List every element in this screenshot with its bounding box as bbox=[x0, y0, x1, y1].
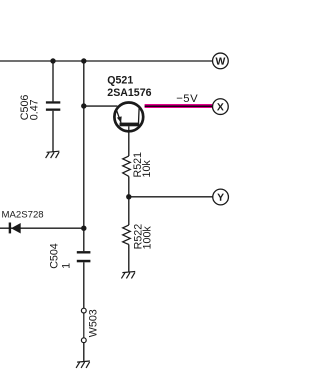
wire collector to X, magenta highlighted -5V line bbox=[145, 104, 213, 108]
ground below W503 bbox=[76, 361, 90, 368]
resistor R521 10k bbox=[123, 152, 153, 178]
svg-text:10k: 10k bbox=[141, 160, 153, 178]
capacitor C506 0.47 bbox=[19, 95, 60, 121]
resistor R522 100k bbox=[123, 224, 154, 250]
capacitor C504 1 bbox=[49, 243, 91, 269]
ground below R522 bbox=[121, 272, 135, 279]
wire base down to R521 bbox=[128, 132, 130, 157]
node junction E (Y tap) bbox=[126, 194, 131, 199]
svg-text:W503: W503 bbox=[87, 309, 99, 337]
node junction C (emitter tap) bbox=[81, 103, 86, 108]
wire R521 to junction E bbox=[128, 176, 130, 196]
node junction A (C506 tap) bbox=[50, 58, 55, 63]
ground below C506 bbox=[46, 151, 60, 158]
node junction D (diode tap) bbox=[81, 226, 86, 231]
svg-text:2SA1576: 2SA1576 bbox=[107, 87, 151, 99]
wire junction C down to junction D bbox=[83, 106, 85, 228]
wire junction D down to C504 bbox=[83, 228, 85, 251]
wire C504 down to W503 bbox=[83, 262, 85, 308]
svg-text:100k: 100k bbox=[141, 226, 153, 250]
wire C506 down to ground bbox=[52, 111, 54, 152]
svg-text:1: 1 bbox=[61, 263, 73, 269]
wire emitter horizontal bbox=[84, 105, 118, 107]
connector W503 bbox=[81, 308, 99, 342]
wire W503 down to ground bbox=[83, 343, 85, 362]
node junction B (vertical branch) bbox=[81, 58, 86, 63]
wire junction E to R522 bbox=[128, 197, 130, 225]
svg-text:C504: C504 bbox=[49, 243, 61, 269]
wire junction B down to junction C bbox=[83, 61, 85, 106]
wire junction A down to C506 bbox=[52, 61, 54, 101]
wire top horizontal to W bbox=[0, 60, 212, 62]
svg-text:Y: Y bbox=[217, 193, 224, 204]
diode MA2S728 bbox=[2, 209, 44, 233]
wire junction E to Y bbox=[129, 196, 213, 198]
transistor Q521 2SA1576 bbox=[107, 75, 151, 132]
terminal W bbox=[213, 53, 229, 69]
svg-text:X: X bbox=[217, 102, 224, 113]
wire R522 to ground bbox=[128, 245, 130, 272]
svg-text:−5V: −5V bbox=[176, 93, 198, 105]
svg-text:0.47: 0.47 bbox=[28, 99, 40, 120]
svg-text:MA2S728: MA2S728 bbox=[2, 209, 44, 220]
svg-text:W: W bbox=[215, 57, 225, 68]
svg-text:Q521: Q521 bbox=[107, 75, 133, 87]
terminal Y bbox=[213, 189, 229, 205]
terminal X bbox=[213, 99, 229, 115]
wire diode row bbox=[0, 227, 84, 229]
